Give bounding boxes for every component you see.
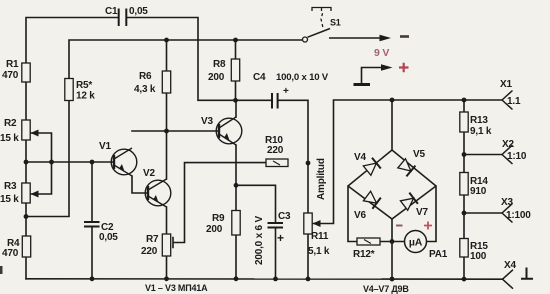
resistor R14	[460, 173, 468, 196]
svg-text:15 k: 15 k	[0, 194, 19, 205]
wire supply row	[69, 40, 303, 79]
resistor R2	[22, 120, 30, 140]
svg-text:200,0 x 6 V: 200,0 x 6 V	[254, 216, 265, 265]
resistor R8	[231, 59, 239, 81]
wire attenuator column	[463, 100, 465, 279]
svg-text:R3: R3	[4, 181, 17, 192]
svg-text:S1: S1	[330, 18, 341, 28]
capacitor C2	[84, 222, 100, 227]
wire bridge top	[391, 100, 393, 150]
diode V7	[400, 193, 418, 211]
svg-text:470: 470	[2, 70, 19, 81]
svg-text:V4: V4	[354, 152, 366, 163]
text labels right	[353, 79, 531, 271]
svg-text:5,1 k: 5,1 k	[308, 246, 330, 257]
text labels left column	[0, 6, 226, 259]
svg-text:15 k: 15 k	[0, 133, 19, 144]
svg-text:220: 220	[267, 145, 284, 156]
resistor slash marks	[273, 161, 371, 244]
terminal X4	[503, 270, 514, 289]
svg-text:X2: X2	[502, 139, 514, 150]
svg-text:Amplitud: Amplitud	[316, 158, 327, 200]
resistor R7	[162, 234, 170, 256]
svg-text:470: 470	[2, 248, 19, 259]
wire R12 to meter	[380, 241, 405, 243]
resistor R3	[22, 183, 30, 203]
svg-text:R1: R1	[6, 59, 19, 70]
diode V5	[398, 159, 416, 177]
capacitor C1	[119, 9, 127, 27]
potentiometer R11 wiper	[313, 220, 321, 227]
transistor V1	[111, 148, 137, 176]
text labels middle	[253, 18, 389, 266]
resistor R5	[65, 79, 73, 101]
svg-text:V1: V1	[99, 141, 111, 152]
diode bridge edges	[348, 150, 436, 219]
wire R8 column	[235, 40, 237, 100]
svg-text:C3: C3	[278, 211, 291, 222]
wire X2 tap	[464, 154, 502, 156]
resistor R12	[357, 238, 380, 245]
svg-text:X1: X1	[500, 79, 512, 90]
svg-text:R12*: R12*	[353, 249, 375, 260]
svg-text:C1: C1	[105, 6, 118, 17]
svg-text:C4: C4	[253, 72, 266, 83]
svg-text:9,1 k: 9,1 k	[470, 126, 492, 137]
wire R2 R3 wiper link	[30, 133, 52, 194]
wire bottom bus	[26, 278, 503, 280]
diode V4	[363, 158, 381, 176]
wire V2 collector	[166, 131, 168, 179]
svg-text:220: 220	[141, 246, 158, 257]
wire V1 emitter to V2 base	[132, 176, 148, 193]
potentiometer R3 wiper	[31, 191, 39, 198]
wire R6 column	[166, 40, 168, 131]
svg-text:100,0 x 10 V: 100,0 x 10 V	[276, 72, 329, 83]
svg-text:R13: R13	[470, 115, 488, 126]
ground symbol	[521, 268, 533, 279]
wire V3 emitter R9 column	[235, 145, 237, 279]
wire R3 bottom to R5 dogleg	[26, 101, 69, 217]
terminal X3	[502, 204, 513, 223]
resistor R11	[304, 213, 312, 234]
svg-text:V5: V5	[413, 149, 425, 160]
diode V6	[363, 191, 380, 209]
capacitor C4	[272, 93, 278, 109]
svg-text:0,05: 0,05	[99, 232, 118, 243]
resistor R13	[460, 112, 468, 132]
wire R1-R2-R3 column	[25, 82, 27, 279]
resistor R9	[232, 211, 240, 236]
resistor R6	[162, 71, 170, 93]
wire X3 tap	[464, 212, 502, 214]
svg-text:X4: X4	[504, 260, 516, 271]
svg-text:200: 200	[206, 224, 223, 235]
svg-text:V1 – V3 МП41А: V1 – V3 МП41А	[145, 283, 208, 293]
resistor R4	[22, 236, 30, 257]
svg-text:V6: V6	[354, 210, 366, 221]
svg-text:R9: R9	[212, 213, 225, 224]
svg-text:R6: R6	[139, 71, 152, 82]
wire C3 branch	[236, 185, 276, 278]
wire collector row V1-V3	[132, 130, 219, 132]
wire C4 row	[236, 100, 309, 278]
battery minus arrow	[329, 35, 409, 42]
svg-text:R2: R2	[4, 118, 17, 129]
svg-text:R8: R8	[213, 59, 226, 70]
svg-text:V2: V2	[143, 168, 155, 179]
wire R7 tap to R10	[173, 163, 266, 248]
wire top C1 row	[26, 18, 236, 101]
svg-text:1:10: 1:10	[507, 151, 527, 162]
resistor R1	[22, 63, 30, 82]
wire C2 column	[91, 162, 93, 279]
svg-text:µA: µA	[409, 237, 423, 249]
svg-text:0,05: 0,05	[129, 6, 148, 17]
svg-text:1.1: 1.1	[507, 96, 521, 107]
svg-text:V7: V7	[416, 207, 428, 218]
bridge minus mark	[396, 225, 403, 227]
wire R11 wiper to rail	[312, 100, 503, 224]
wire base row	[26, 161, 114, 163]
wire V3 collector column	[235, 100, 237, 117]
battery plus arrow	[354, 63, 409, 85]
transistor V2	[145, 179, 171, 207]
svg-text:200: 200	[208, 72, 225, 83]
svg-text:910: 910	[470, 186, 487, 197]
meter PA1	[405, 231, 427, 253]
svg-text:PA1: PA1	[429, 249, 448, 260]
transistor V3	[216, 117, 242, 145]
svg-text:R11: R11	[311, 231, 329, 242]
svg-text:100: 100	[470, 251, 487, 262]
terminal X1	[502, 91, 513, 110]
resistor R10	[266, 159, 288, 167]
terminal X2	[502, 145, 513, 164]
switch S1	[303, 8, 332, 43]
wire bridge bottom	[391, 219, 393, 279]
svg-text:+: +	[277, 231, 284, 245]
wire bridge left leg	[348, 186, 357, 242]
potentiometer R2 wiper	[31, 130, 39, 137]
bridge plus mark	[424, 222, 432, 230]
resistor R15	[460, 239, 468, 258]
capacitor C3	[268, 223, 284, 228]
svg-text:X3: X3	[501, 197, 513, 208]
wire bridge right leg	[427, 186, 437, 242]
svg-text:R5*: R5*	[76, 80, 92, 91]
svg-text:4,3 k: 4,3 k	[134, 84, 156, 95]
svg-text:1:100: 1:100	[506, 210, 531, 221]
svg-text:+: +	[283, 86, 289, 97]
svg-text:R7: R7	[146, 234, 159, 245]
svg-text:9 V: 9 V	[374, 47, 389, 59]
wire V2 emitter to R7	[166, 207, 168, 279]
left edge artifact	[0, 266, 3, 274]
svg-text:V4–V7 Д9В: V4–V7 Д9В	[363, 284, 409, 294]
svg-text:12 k: 12 k	[76, 91, 95, 102]
svg-text:V3: V3	[201, 116, 213, 127]
